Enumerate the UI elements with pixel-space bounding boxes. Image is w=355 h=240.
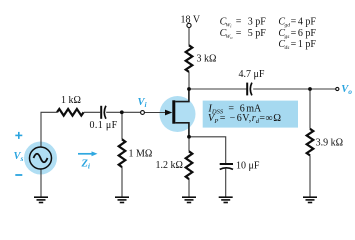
capacitor 4.7 uF xyxy=(247,83,252,96)
ground under 1M xyxy=(115,197,129,202)
svg-text:=: = xyxy=(291,28,297,39)
label 10 uF xyxy=(236,160,260,171)
JFET xyxy=(165,90,189,137)
svg-text:1 pF: 1 pF xyxy=(298,39,317,50)
node drain junction xyxy=(187,87,191,91)
resistor 3 kOhm xyxy=(186,45,193,72)
capacitor 0.1 uF xyxy=(101,106,106,119)
wire 3k resistor to drain node xyxy=(188,72,190,89)
source Vs (sine) xyxy=(30,147,52,169)
svg-text:4 pF: 4 pF xyxy=(298,16,317,27)
svg-text:=: = xyxy=(236,28,242,39)
svg-text:6: 6 xyxy=(237,113,242,124)
label 1 kOhm xyxy=(61,95,81,106)
svg-text:3 kΩ: 3 kΩ xyxy=(197,54,217,65)
svg-text:Cds: Cds xyxy=(278,39,289,51)
label Vi xyxy=(138,97,148,109)
svg-text:Vs: Vs xyxy=(14,151,24,163)
label Zi xyxy=(81,159,91,171)
wire source node to bypass cap xyxy=(189,137,226,164)
label Cds = 1 pF xyxy=(278,39,316,51)
resistor 1 kOhm xyxy=(57,109,84,116)
label CWo = 5 pF xyxy=(220,28,267,40)
svg-text:−: − xyxy=(230,113,236,124)
svg-text:1.2 kΩ: 1.2 kΩ xyxy=(156,160,183,171)
svg-text:=: = xyxy=(220,113,226,124)
label 3.9 kOhm xyxy=(316,138,343,149)
label 1 MOhm xyxy=(129,149,153,160)
svg-text:=: = xyxy=(291,16,297,27)
wire 1M branch upper xyxy=(121,112,123,139)
wire Vi terminal to gate xyxy=(145,112,166,114)
wire 1k resistor to 0.1uF xyxy=(84,111,100,113)
label Cgd = 4 pF xyxy=(278,16,316,28)
resistor 1.2 kOhm xyxy=(186,151,193,179)
label Zi arrow xyxy=(78,151,98,156)
label Cgs = 6 pF xyxy=(278,28,316,40)
svg-text:10 μF: 10 μF xyxy=(236,160,260,171)
label 1.2 kOhm xyxy=(156,160,183,171)
label 0.1 uF xyxy=(90,120,118,131)
wire 0.1uF to Vi terminal xyxy=(106,111,140,113)
ground under 3.9k xyxy=(303,197,317,202)
ground under 1.2k xyxy=(182,197,196,202)
wire 1M to ground xyxy=(121,167,123,197)
capacitor 10 uF xyxy=(220,164,233,169)
wire 4.7uF to Vo terminal xyxy=(253,88,336,90)
svg-text:Vi: Vi xyxy=(138,97,148,109)
svg-text:4.7 μF: 4.7 μF xyxy=(239,69,265,80)
svg-text:5 pF: 5 pF xyxy=(248,28,267,39)
svg-text:CWi: CWi xyxy=(220,16,233,28)
node output junction xyxy=(308,87,312,91)
terminal 18V xyxy=(187,23,191,27)
info box xyxy=(203,101,298,128)
label 3 kOhm xyxy=(197,54,217,65)
label VP = -6V rd = inf xyxy=(208,113,281,125)
wire source of JFET down to node xyxy=(188,123,190,151)
svg-text:=: = xyxy=(291,39,297,50)
svg-text:Cgd: Cgd xyxy=(278,16,290,28)
label 4.7 uF xyxy=(239,69,265,80)
label minus xyxy=(15,174,22,176)
svg-text:CWo: CWo xyxy=(220,28,234,40)
highlight circle around source Vs xyxy=(24,142,57,175)
wire 10uF to ground xyxy=(225,169,227,197)
wire 3.9k to ground xyxy=(309,155,311,196)
wire Vs to ground xyxy=(40,169,42,197)
svg-text:1 MΩ: 1 MΩ xyxy=(129,149,153,160)
node source junction xyxy=(187,135,191,139)
wire Vs to 1k resistor xyxy=(41,112,57,147)
wire 18V supply to 3k resistor xyxy=(188,28,190,46)
wire drain node to 4.7uF xyxy=(189,88,247,90)
label 18 V xyxy=(181,15,201,26)
svg-text:∞: ∞ xyxy=(265,113,272,124)
svg-text:3 pF: 3 pF xyxy=(248,16,267,27)
svg-text:18 V: 18 V xyxy=(181,15,201,26)
label Vo xyxy=(341,84,352,96)
label Vs xyxy=(14,151,24,163)
resistor 1 MOhm xyxy=(119,139,126,167)
wire 1.2k to ground xyxy=(188,179,190,197)
terminal Vo xyxy=(336,87,339,90)
label IDSS = 6 mA xyxy=(207,103,262,115)
svg-text:Ω: Ω xyxy=(273,113,281,124)
label CWi = 3 pF xyxy=(220,16,267,28)
svg-text:Vo: Vo xyxy=(341,84,352,96)
highlight circle around JFET xyxy=(160,96,196,132)
svg-text:Zi: Zi xyxy=(81,159,91,171)
ground under Vs xyxy=(34,197,48,202)
ground under 10uF xyxy=(219,197,233,202)
terminal Vi xyxy=(141,111,145,115)
wire output node down to 3.9k xyxy=(309,89,311,129)
svg-text:6 pF: 6 pF xyxy=(298,28,317,39)
svg-text:3.9 kΩ: 3.9 kΩ xyxy=(316,138,343,149)
node Vi junction xyxy=(120,110,124,114)
resistor 3.9 kOhm xyxy=(307,129,314,156)
svg-text:0.1 μF: 0.1 μF xyxy=(90,120,118,131)
svg-text:Cgs: Cgs xyxy=(278,28,289,40)
svg-text:=: = xyxy=(236,16,242,27)
svg-text:1 kΩ: 1 kΩ xyxy=(61,95,81,106)
label plus xyxy=(15,132,22,139)
